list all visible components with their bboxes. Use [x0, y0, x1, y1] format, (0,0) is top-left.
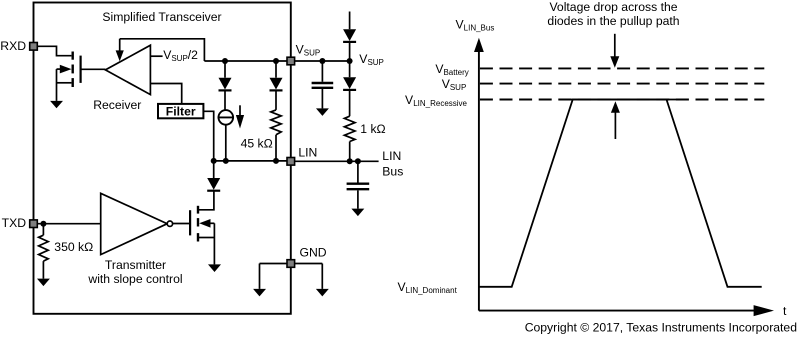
wire filter output down to LIN node	[203, 111, 213, 161]
ground (right of GND pin)	[316, 289, 329, 297]
svg-text:LIN: LIN	[298, 146, 317, 160]
annotation arrow down	[614, 34, 616, 57]
transistor Q2 source lead	[199, 237, 214, 239]
resistor R2 350 kOhm	[42, 224, 44, 236]
transistor Q1 source lead	[57, 82, 72, 84]
wire LIN bus	[295, 160, 379, 162]
resistor R1 45 kOhm	[271, 110, 281, 135]
svg-text:Copyright © 2017, Texas Instru: Copyright © 2017, Texas Instruments Inco…	[525, 321, 797, 335]
inverter bubble	[167, 221, 172, 226]
pin LIN	[287, 158, 295, 166]
ground (C2)	[351, 209, 364, 217]
wire GND spreading	[260, 263, 323, 265]
svg-text:LIN: LIN	[382, 149, 401, 163]
diode D4 (top pullup diode)	[343, 29, 356, 41]
dashed level V_SUP	[480, 83, 764, 85]
node junction dot TXD/350k	[40, 221, 46, 227]
transistor Q1 (receiver output MOSFET) channel	[71, 52, 73, 88]
wire internal LIN rail	[214, 160, 291, 162]
ground (Q2 source)	[208, 264, 221, 272]
svg-text:Voltage drop across the: Voltage drop across the	[549, 0, 677, 14]
node junction dot cap/LIN	[355, 158, 361, 164]
op-amp U1 (receiver comparator)	[105, 45, 150, 94]
diode D2 (45k pullup branch)	[275, 61, 277, 78]
wire RXD pin to MOSFET drain	[37, 46, 71, 55]
current source I1	[219, 110, 234, 125]
svg-text:RXD: RXD	[0, 39, 26, 53]
dashed level V_Battery	[480, 67, 764, 69]
transistor Q1 gate bar	[79, 56, 81, 83]
transistor Q2 (transmitter output MOSFET) channel	[197, 206, 199, 242]
transistor Q2 gate bar	[189, 210, 191, 235]
transistor Q2 body arrow	[199, 219, 210, 228]
svg-text:Transmitter: Transmitter	[105, 258, 166, 272]
wire Q2 body/source to ground	[213, 223, 215, 264]
wire TXD to transmitter input	[37, 223, 100, 225]
annotation arrow up	[614, 112, 616, 139]
node junction dot VSUP rail / 45k branch	[273, 58, 279, 64]
waveform trapezoid	[479, 100, 762, 287]
svg-text:Receiver: Receiver	[93, 98, 141, 112]
ground (C1)	[316, 108, 329, 116]
svg-text:Simplified Transceiver: Simplified Transceiver	[102, 10, 221, 24]
node junction dot VSUP cap	[319, 58, 325, 64]
capacitor C2 (LIN bus)	[357, 161, 359, 182]
svg-text:45 kΩ: 45 kΩ	[241, 136, 273, 150]
wire receiver lower input to filter	[150, 84, 181, 104]
filter block	[158, 104, 203, 118]
svg-text:Filter: Filter	[166, 104, 196, 118]
resistor R3 1 kOhm	[344, 116, 355, 141]
waveform plateau solid overlay	[561, 99, 682, 101]
wire bubble to Q2 gate	[173, 223, 191, 225]
pin TXD	[30, 220, 38, 228]
wire battery feed	[349, 12, 351, 30]
wire Q1 gate to receiver output	[81, 68, 106, 70]
svg-text:1 kΩ: 1 kΩ	[360, 122, 385, 136]
svg-text:350 kΩ: 350 kΩ	[54, 240, 93, 254]
pin GND	[287, 260, 295, 268]
node VSUP external junction	[347, 58, 353, 64]
ground (left of GND pin)	[253, 289, 266, 297]
wire VSUP/2 input stub	[150, 55, 162, 57]
op-amp U2 (transmitter buffer)	[101, 193, 168, 254]
ground (Q1 source)	[50, 101, 63, 108]
svg-text:Bus: Bus	[382, 164, 403, 178]
wire internal VSUP rail	[204, 60, 349, 62]
x axis	[479, 310, 755, 312]
y axis	[478, 51, 480, 311]
diode D5 (lower pullup diode)	[349, 61, 351, 77]
diode D1 (current source branch)	[224, 61, 226, 78]
svg-text:with slope control: with slope control	[87, 272, 182, 286]
dashed level V_LIN_Recessive	[480, 99, 764, 101]
svg-text:GND: GND	[300, 246, 327, 260]
wire Q1 source/body to ground	[56, 69, 58, 101]
svg-text:diodes in the pullup path: diodes in the pullup path	[547, 14, 679, 28]
svg-text:TXD: TXD	[2, 216, 27, 230]
diode D3 (LIN to transmitter MOSFET)	[213, 161, 215, 178]
pin VSUP	[287, 57, 295, 65]
node junction dot VSUP rail / current source branch	[222, 58, 228, 64]
capacitor C1 (VSUP bypass)	[321, 61, 323, 82]
wire receiver feedback	[120, 39, 205, 61]
node junction dot 1k/LIN	[347, 158, 353, 164]
transceiver box outline	[34, 3, 291, 314]
node junction dots LIN rail	[211, 158, 217, 164]
current source arrow	[239, 105, 241, 116]
ground (350k)	[37, 279, 50, 287]
transistor Q1 body arrow	[57, 68, 61, 70]
pin RXD	[30, 43, 38, 51]
